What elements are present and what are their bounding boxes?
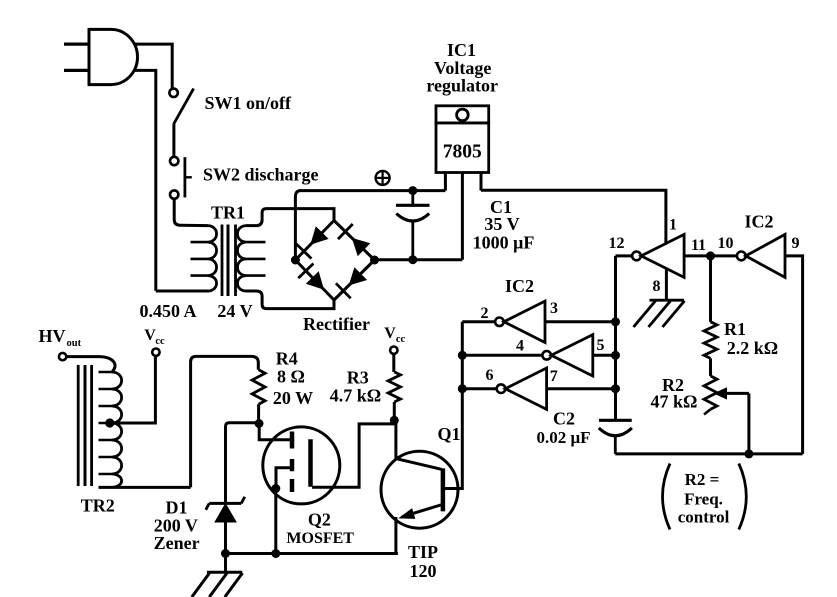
wire pin3 input [545,320,616,323]
inverter U1G bubble [737,252,746,261]
wire TR2 tap to Vcc [110,356,156,423]
wire bridge left vertex up to DC+ rail [295,191,300,260]
wire plug to SW1 [134,44,173,88]
resistor R4 [252,370,265,404]
svg-text:IC2: IC2 [744,212,773,232]
AC plug P1 [89,29,137,84]
resistor R1 [704,322,717,359]
wire bottom rail [615,452,802,455]
Q1 emitter [402,505,442,517]
Q2 channel dashes [290,432,295,493]
wire SW1 to SW2 [172,123,175,156]
switch SW2 pushbutton [170,157,178,165]
svg-text:24 V: 24 V [217,301,252,321]
inverter U1A bubble [495,318,504,327]
svg-text:20 W: 20 W [273,388,313,408]
svg-text:TR1: TR1 [211,203,245,223]
junction dot bridge right vertex [370,256,379,265]
svg-text:control: control [678,508,730,527]
svg-text:11: 11 [691,237,706,254]
Q2 gate bar [308,439,313,487]
svg-text:C2: C2 [553,409,575,429]
svg-text:R4: R4 [276,349,298,369]
svg-text:MOSFET: MOSFET [286,530,354,547]
inverter U1G triangle [746,234,785,277]
junction dot pin7 node [611,384,620,393]
inverter U1B triangle [551,335,593,376]
node plus symbol [376,171,390,185]
IC1 pin in [444,173,447,191]
Q2 drain tap [259,427,292,440]
svg-text:12: 12 [609,235,625,252]
svg-text:regulator: regulator [426,76,498,96]
svg-text:Q1: Q1 [437,424,460,444]
Q2 source tap [276,468,291,489]
wire pin5 input [593,354,616,357]
svg-text:R3: R3 [347,368,369,388]
transformer TR1 primary winding [208,226,217,291]
svg-text:8: 8 [653,278,661,295]
svg-text:35 V: 35 V [484,214,519,234]
wire Q2 source to ground rail [274,489,277,554]
svg-text:7: 7 [550,368,558,385]
wire TR1 secondary bottom to rectifier [246,291,334,309]
svg-text:Zener: Zener [154,533,200,553]
svg-text:9: 9 [792,235,800,252]
transformer TR2 core [77,365,80,486]
svg-text:7805: 7805 [443,142,482,163]
wire pin12 input [616,254,633,257]
svg-text:10: 10 [718,235,734,252]
svg-text:SW2 discharge: SW2 discharge [203,165,319,185]
junction dot pin4 out [458,351,467,360]
wire ground rail bridge to IC1 [375,258,463,261]
wire pin6 output [462,387,496,390]
diode D-UL [310,226,328,244]
svg-text:cc: cc [155,336,165,347]
wire D1 to ground rail [224,523,227,554]
junction dot Q2 source ground [271,549,280,558]
IC1 pin out [480,173,483,191]
wire TR2 primary to R4 [191,356,259,487]
junction dot pin3 node [611,317,620,326]
switch SW1 [169,89,177,97]
ground chassis at pin 8 [650,299,685,302]
terminal HVout [59,353,66,360]
wire R2 wiper down [747,393,750,454]
junction dot pin6 out [458,384,467,393]
junction dot drain node [255,419,264,428]
wire TR2 bottom [99,486,191,489]
wire pin7 input [547,387,616,390]
wire R4 to drain node [257,404,260,423]
wire TR1 primary bottom [156,290,209,293]
transformer TR2 winding [112,372,122,487]
inverter U1C triangle [505,368,546,409]
svg-text:2.2 kΩ: 2.2 kΩ [727,338,778,358]
svg-text:2: 2 [481,305,489,322]
op-amp: none; IC1 voltage regulator 7805 body [436,106,489,123]
zener D1 [214,503,237,523]
svg-text:1000 μF: 1000 μF [473,233,535,253]
svg-text:Rectifier: Rectifier [303,314,370,334]
svg-text:IC2: IC2 [505,276,534,296]
junction dot pin5 node [611,351,620,360]
svg-text:SW1 on/off: SW1 on/off [205,93,293,113]
svg-text:TIP: TIP [408,542,438,562]
inverter U1F triangle [641,234,684,277]
resistor R3 [388,372,400,402]
diode D-LR [349,267,367,285]
wire DC+ rail to IC1 input pin [299,189,445,192]
capacitor C2 [599,419,632,422]
Q1 base bar [441,468,446,511]
svg-text:HV: HV [39,326,66,346]
junction dot C1 bottom [408,255,417,264]
terminal Vcc left [152,349,159,356]
svg-text:47 kΩ: 47 kΩ [651,392,698,412]
junction dot pin11 node [706,251,715,260]
svg-text:out: out [67,338,82,349]
wire pin4 output [462,354,542,357]
wire pin11 to pin10 [684,254,737,257]
diode D-LL [306,271,324,290]
svg-text:V: V [384,325,396,342]
junction dot C1 top [408,186,417,195]
transformer TR1 core [221,225,224,297]
wire R3 to collector node [393,402,396,420]
Q1 collector [396,420,442,469]
svg-text:6: 6 [486,367,494,384]
svg-text:1: 1 [669,217,677,234]
wire pin8 to ground [665,268,668,300]
wire +5V rail [481,190,666,243]
svg-text:R1: R1 [724,319,746,339]
svg-text:Q2: Q2 [308,510,331,530]
svg-text:0.02 μF: 0.02 μF [536,428,590,447]
svg-text:5: 5 [597,337,605,354]
capacitor C1 [411,191,414,206]
svg-text:4: 4 [516,338,524,355]
wire SW2 to TR1 primary [174,199,208,226]
wire pin9 to right rail [785,256,803,454]
wire R1 to R2 [709,358,712,376]
wire drain node to D1 [226,423,256,504]
wire pin11 node to R1 [709,256,712,322]
svg-text:IC1: IC1 [447,40,476,60]
svg-text:R2 =: R2 = [685,470,720,489]
wire ground rail [226,552,398,555]
svg-text:0.450 A: 0.450 A [139,301,196,321]
wire gate outputs rail to Q1 base [445,322,463,489]
junction dot bridge left vertex [291,256,300,265]
diode D-UR [352,238,370,256]
note R2 freq control [663,464,671,530]
junction dot D1 ground [221,549,230,558]
junction dot collector node [390,416,399,425]
R2 wiper arrow [714,387,728,399]
wire TR1 secondary top to rectifier [246,209,334,226]
transistor Q2 circle [263,427,340,504]
inverter U1B bubble [542,351,551,360]
resistor R2 body [704,376,717,409]
svg-text:cc: cc [396,334,406,345]
transistor Q1 circle [381,451,458,528]
wire HVout to TR2 [66,357,115,372]
wire collector node to Q2 gate [312,424,394,487]
wire to chassis ground [224,554,227,573]
ground chassis bottom [207,571,242,574]
svg-text:8 Ω: 8 Ω [277,367,305,387]
transformer TR1 secondary winding [237,226,246,291]
junction dot Q2 source [271,484,280,493]
junction dot wiper bottom [744,449,753,458]
wire pin2 output [462,320,495,323]
wire plug left vertical to TR1 [134,70,156,290]
svg-text:120: 120 [410,561,437,581]
wire Vcc to R3 [392,354,395,372]
junction dot TR2 tap [105,418,114,427]
rectifier bridge diamond [295,221,334,261]
inverter U1F bubble [632,252,641,261]
svg-text:Freq.: Freq. [684,489,723,508]
svg-text:4.7 kΩ: 4.7 kΩ [330,386,381,406]
wire pin12 rail down to C2 [614,256,617,420]
terminal Vcc right [390,347,397,354]
inverter U1A triangle [504,301,545,342]
IC1 pin gnd [461,173,464,260]
svg-text:3: 3 [550,300,558,317]
inverter U1C bubble [497,384,506,393]
svg-text:TR2: TR2 [81,496,115,516]
